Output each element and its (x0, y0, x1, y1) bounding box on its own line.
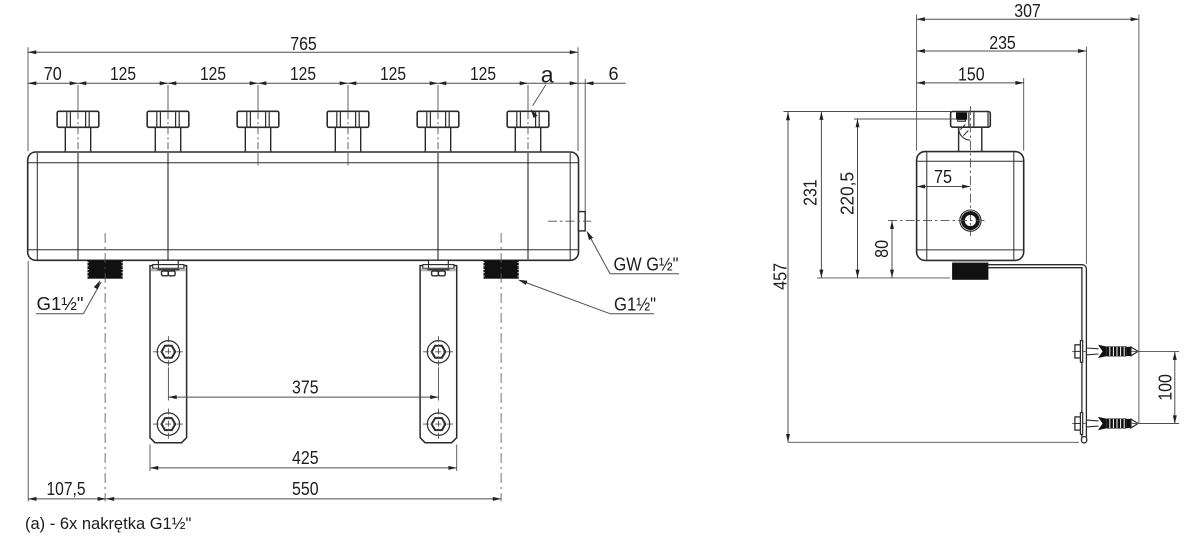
svg-text:G1½": G1½" (37, 294, 84, 314)
svg-text:6: 6 (608, 64, 618, 84)
svg-text:765: 765 (290, 34, 317, 54)
svg-text:G1½": G1½" (614, 294, 656, 314)
svg-text:457: 457 (771, 263, 791, 290)
svg-text:100: 100 (1156, 374, 1176, 401)
svg-text:125: 125 (200, 64, 226, 84)
svg-text:75: 75 (934, 167, 952, 187)
svg-text:307: 307 (1014, 1, 1041, 21)
svg-text:125: 125 (110, 64, 136, 84)
svg-text:(a) - 6x nakrętka G1½": (a) - 6x nakrętka G1½" (25, 515, 191, 533)
svg-text:GW G½": GW G½" (614, 255, 679, 275)
svg-text:125: 125 (470, 64, 496, 84)
svg-text:107,5: 107,5 (47, 479, 86, 499)
svg-text:125: 125 (290, 64, 316, 84)
svg-text:a: a (541, 61, 554, 87)
svg-text:231: 231 (801, 179, 821, 206)
svg-text:375: 375 (292, 377, 319, 397)
svg-text:235: 235 (989, 33, 1016, 53)
svg-text:550: 550 (292, 479, 319, 499)
svg-text:425: 425 (292, 448, 319, 468)
svg-text:150: 150 (958, 64, 985, 84)
svg-text:220,5: 220,5 (838, 172, 858, 215)
svg-text:70: 70 (44, 64, 62, 84)
svg-text:125: 125 (380, 64, 406, 84)
svg-text:80: 80 (872, 240, 892, 258)
